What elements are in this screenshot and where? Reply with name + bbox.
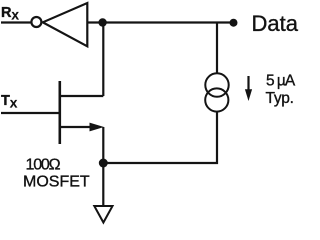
inverter U1 triangle	[43, 3, 88, 46]
wire Rx input	[1, 21, 31, 23]
current source I1 circle top	[205, 73, 228, 96]
node Data terminal dot	[230, 19, 238, 27]
transistor Q1 drain lead	[60, 95, 104, 97]
transistor Q1 gate bar	[58, 81, 61, 144]
wire ground lead	[102, 163, 104, 206]
svg-text:MOSFET: MOSFET	[23, 174, 90, 191]
wire bottom rail	[103, 112, 217, 163]
transistor Q1 source arrowhead	[90, 123, 105, 132]
node junction top	[98, 18, 106, 26]
transistor Q1 source lead	[60, 126, 96, 128]
svg-text:5 µA: 5 µA	[266, 73, 296, 90]
current direction arrow	[247, 76, 249, 91]
node junction bottom	[99, 159, 108, 168]
svg-text:Typ.: Typ.	[266, 90, 294, 107]
svg-text:Data: Data	[252, 11, 299, 36]
ground	[94, 206, 112, 223]
svg-text:100Ω: 100Ω	[26, 157, 61, 174]
wire drain vertical	[102, 23, 104, 97]
svg-text:TX: TX	[1, 93, 18, 111]
wire source vertical	[102, 127, 104, 163]
wire current source top	[216, 23, 218, 75]
svg-text:RX: RX	[1, 5, 19, 23]
wire top rail	[87, 21, 233, 23]
wire Tx input	[1, 112, 60, 114]
current source I1 circle bottom	[205, 88, 228, 111]
inverter bubble	[31, 17, 41, 27]
